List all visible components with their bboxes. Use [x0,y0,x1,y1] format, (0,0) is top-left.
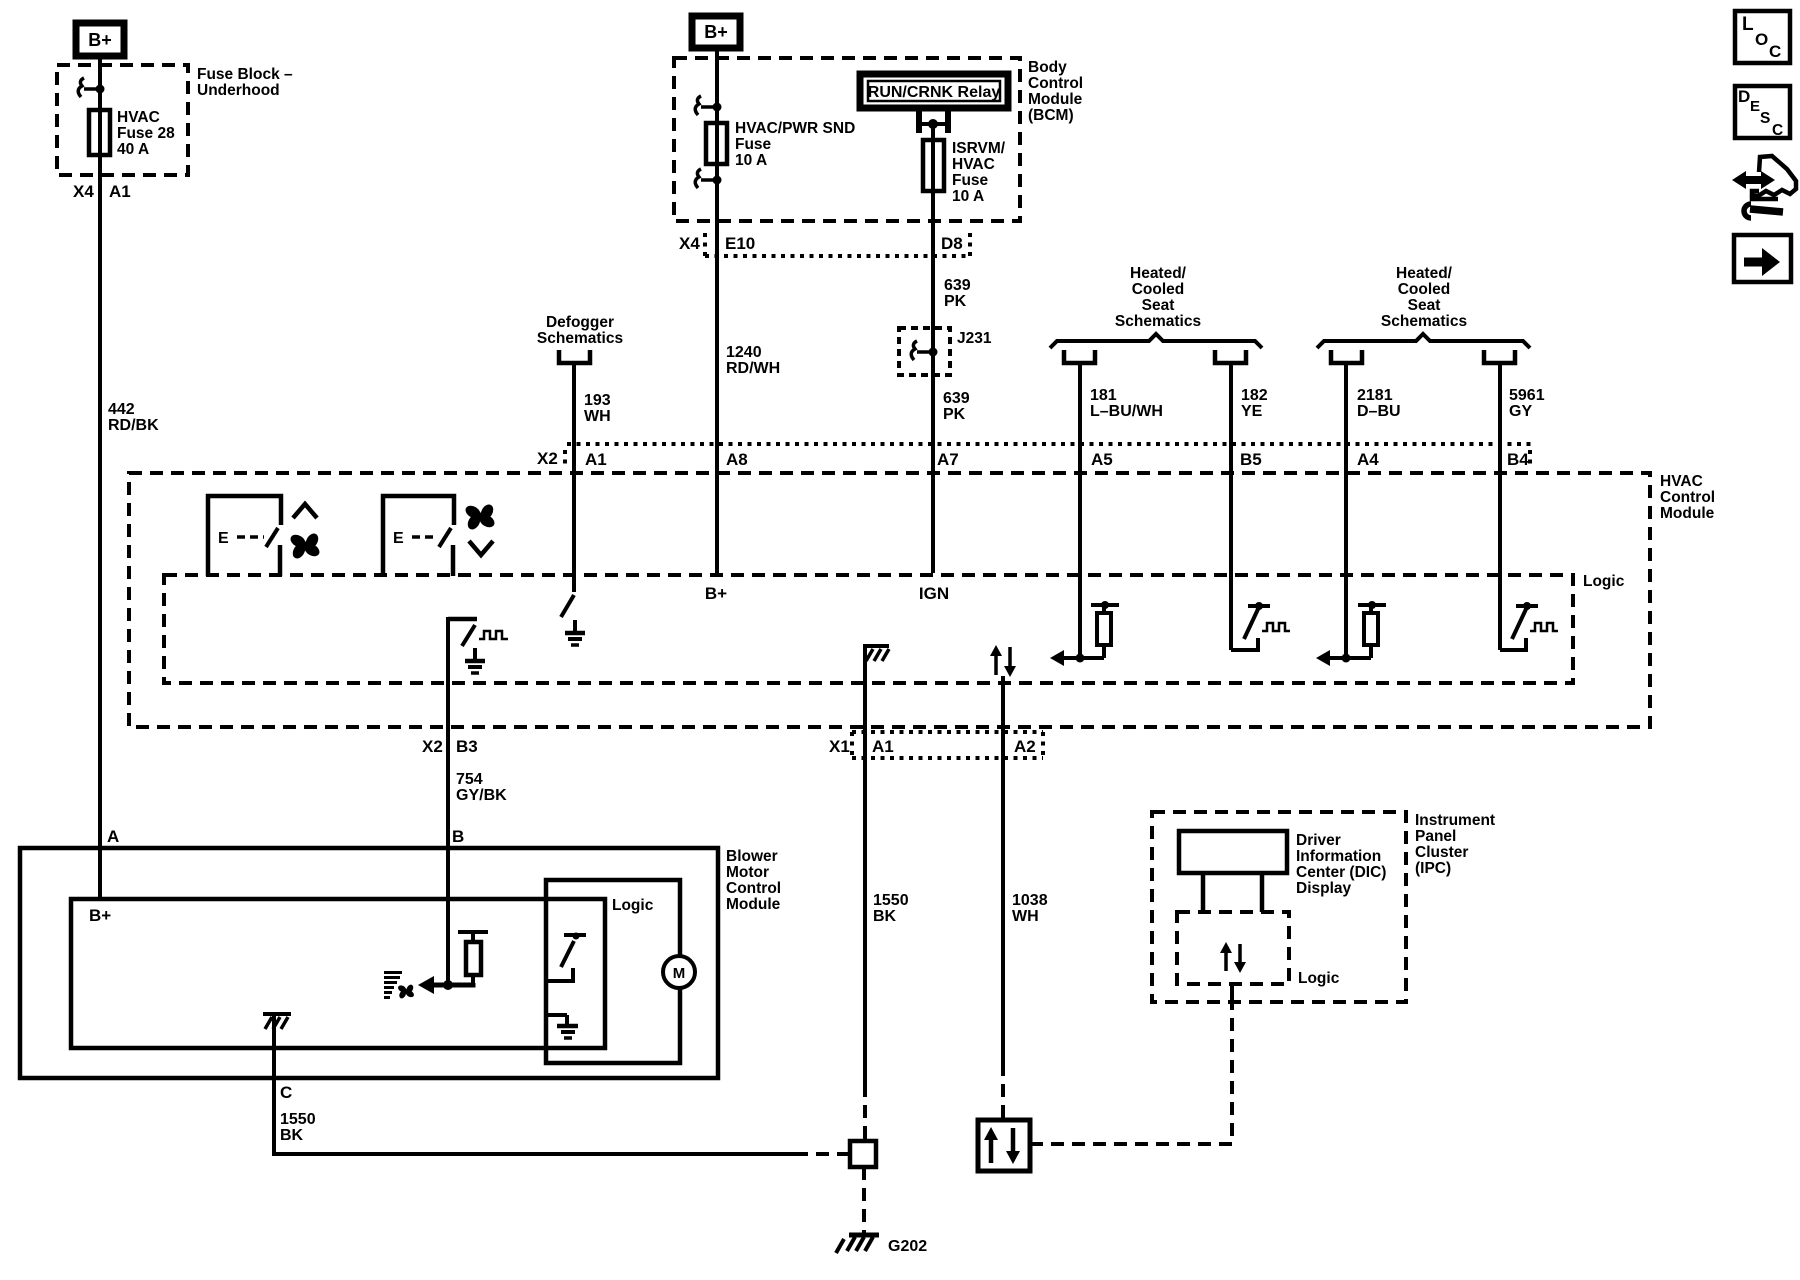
icon forward arrow box [1734,235,1791,282]
svg-text:B+: B+ [704,22,728,42]
svg-text:PK: PK [943,406,966,423]
svg-text:X4: X4 [73,182,94,201]
svg-text:E: E [393,530,404,547]
svg-text:Logic: Logic [612,897,654,914]
wire 5961 GY [1498,363,1502,650]
svg-text:Defogger: Defogger [546,314,614,331]
svg-text:PK: PK [944,293,967,310]
svg-text:182: 182 [1241,387,1268,404]
svg-text:Body: Body [1028,59,1067,76]
wire splice to G202 (dashed) [862,1167,866,1233]
svg-text:YE: YE [1241,403,1263,420]
splice J231 dashed box [899,328,992,375]
svg-text:L: L [1742,14,1754,35]
speed control resistor (module) [418,932,488,994]
svg-text:A5: A5 [1091,450,1113,469]
svg-text:A8: A8 [726,450,748,469]
actuator box 2 (mode door) [383,496,454,576]
wire 1038 WH dashed to arrow box [1001,1063,1005,1120]
svg-text:E: E [218,530,229,547]
svg-text:Display: Display [1296,880,1352,897]
svg-text:Panel: Panel [1415,828,1456,845]
svg-text:Underhood: Underhood [197,82,280,99]
wire 1550 BK (A1) solid part [863,646,867,1084]
blower speed output driver (B3) [448,619,508,646]
off-page bracket B5 [1215,350,1246,363]
svg-text:E10: E10 [725,234,755,253]
icon LOC box [1735,11,1790,63]
svg-text:181: 181 [1090,387,1117,404]
svg-text:D–BU: D–BU [1357,403,1401,420]
svg-text:RUN/CRNK Relay: RUN/CRNK Relay [868,84,1001,101]
svg-text:X4: X4 [679,234,700,253]
svg-text:Blower: Blower [726,848,778,865]
chassis ground symbol (A1 output) [863,646,889,661]
X1 connector row A1 A2 [829,732,1043,758]
svg-text:Seat: Seat [1408,297,1441,314]
label Fuse Block - Underhood [197,66,293,99]
seat sensor A5: resistor + arrow [1050,601,1119,666]
svg-text:Module: Module [726,896,781,913]
svg-text:G202: G202 [888,1238,927,1255]
svg-text:1240: 1240 [726,344,762,361]
ground G202 [836,1235,927,1255]
svg-text:Schematics: Schematics [1115,313,1201,330]
svg-text:A: A [107,827,119,846]
icon DESC box [1735,86,1790,139]
svg-text:Fuse: Fuse [952,172,989,189]
fan icon 2 [463,502,496,531]
svg-text:(IPC): (IPC) [1415,860,1451,877]
svg-text:BK: BK [280,1127,304,1144]
svg-text:Motor: Motor [726,864,769,881]
pwm/fan icon (speed command) [384,971,415,1000]
svg-text:1038: 1038 [1012,892,1048,909]
svg-text:B5: B5 [1240,450,1262,469]
ground (blower driver) [465,648,485,673]
svg-text:40 A: 40 A [117,141,149,158]
svg-text:B+: B+ [705,584,727,603]
chevron down (fan speed down) [469,541,493,555]
svg-text:IGN: IGN [919,584,949,603]
svg-text:10 A: 10 A [952,188,984,205]
brace (left seat group) [1050,334,1262,348]
svg-text:Schematics: Schematics [1381,313,1467,330]
wire label 639 PK (lower) [943,390,970,423]
svg-text:HVAC/PWR SND: HVAC/PWR SND [735,120,855,137]
wire 639 PK vertical [931,124,935,573]
pins X2 / B3 [422,737,478,756]
wire 1240 RD/WH vertical [715,51,719,573]
svg-text:Fuse: Fuse [735,136,772,153]
svg-text:Seat: Seat [1142,297,1175,314]
svg-text:Driver: Driver [1296,832,1341,849]
svg-text:HVAC: HVAC [1660,473,1703,490]
fan icon 1 [288,531,321,560]
svg-text:10 A: 10 A [735,152,767,169]
label Heated/Cooled Seat Schematics (left) [1115,265,1201,330]
svg-text:WH: WH [1012,908,1039,925]
label Heated/Cooled Seat Schematics (right) [1381,265,1467,330]
svg-text:O: O [1755,30,1768,49]
svg-text:Cooled: Cooled [1132,281,1185,298]
module B+ bus box [71,899,605,1048]
wire 1038 WH (A2) solid part [1001,676,1005,1063]
logic switch (module) [548,933,586,982]
ground (defogger output) [565,620,585,645]
node IGN (logic input) [919,584,949,603]
svg-text:RD/BK: RD/BK [108,417,159,434]
svg-text:GY: GY [1509,403,1532,420]
power symbol B+ (middle) [692,16,740,48]
svg-text:Logic: Logic [1583,573,1625,590]
svg-text:1550: 1550 [280,1111,316,1128]
wire label 442 RD/BK [108,401,159,434]
svg-text:193: 193 [584,392,611,409]
svg-text:S: S [1760,110,1770,127]
svg-text:Fuse 28: Fuse 28 [117,125,175,142]
wire 181 L-BU/WH [1078,363,1082,658]
wire 2181 D-BU [1344,363,1348,658]
svg-text:B+: B+ [88,30,112,50]
actuator box 1 (mode door) [208,496,281,576]
svg-text:A2: A2 [1014,737,1036,756]
off-page bracket A5 [1064,350,1095,363]
svg-text:L–BU/WH: L–BU/WH [1090,403,1163,420]
body control module dashed box [674,58,1020,221]
svg-text:B+: B+ [89,906,111,925]
wire 1550 BK dashed to splice [863,1084,867,1141]
svg-text:Control: Control [1028,75,1083,92]
chevron up (fan speed up) [293,504,317,518]
svg-text:Center (DIC): Center (DIC) [1296,864,1386,881]
wire data box to IPC (dashed) [1030,1005,1232,1144]
connector clip above fuse [695,96,721,115]
svg-text:D8: D8 [941,234,963,253]
fuse ISRVM/HVAC 10A [923,140,944,191]
svg-text:Logic: Logic [1298,970,1340,987]
svg-text:C: C [1769,42,1781,61]
logic ground (module) [548,1015,578,1038]
wire 754 GY/BK (B3 to blower module B) [446,617,450,985]
svg-text:B: B [452,827,464,846]
svg-text:A1: A1 [109,182,131,201]
label Defogger Schematics [537,314,623,347]
svg-text:C: C [1772,122,1783,139]
svg-text:E: E [1750,98,1760,115]
svg-text:M: M [673,965,686,982]
wire C 1550 BK (module to splice) [274,1014,795,1154]
svg-text:A1: A1 [585,450,607,469]
svg-text:A7: A7 [937,450,959,469]
off-page bracket B4 [1484,350,1515,363]
svg-text:Information: Information [1296,848,1381,865]
wire label 1240 RD/WH [726,344,780,377]
off-page bracket A4 [1331,350,1362,363]
power symbol B+ (left) [76,23,124,56]
pins X4 / A1 (fuse block) [73,182,131,201]
serial data box (up/down arrows) [978,1120,1030,1171]
off-page bracket (defogger) [559,350,590,363]
pin C [280,1083,292,1102]
svg-text:Instrument: Instrument [1415,812,1495,829]
svg-text:A4: A4 [1357,450,1379,469]
svg-text:2181: 2181 [1357,387,1393,404]
defogger output switch (logic) [561,595,574,617]
connector clip on wire (fuse block) [78,78,104,97]
relay RUN/CRNK [860,74,1008,108]
svg-text:5961: 5961 [1509,387,1545,404]
connector clip below fuse [695,169,721,188]
label Body Control Module (BCM) [1028,59,1083,124]
wire 442 RD/BK vertical (B+ to blower module A) [98,59,102,899]
DIC display box [1179,831,1287,912]
svg-text:Heated/: Heated/ [1130,265,1187,282]
svg-text:Control: Control [1660,489,1715,506]
svg-text:BK: BK [873,908,897,925]
seat sensor A4: resistor + arrow [1316,601,1386,666]
svg-text:(BCM): (BCM) [1028,107,1074,124]
seat driver B4: switch + pwm [1500,602,1558,650]
svg-text:RD/WH: RD/WH [726,360,780,377]
svg-text:639: 639 [943,390,970,407]
svg-text:X2: X2 [537,449,558,468]
svg-text:HVAC: HVAC [952,156,995,173]
blower motor control module box [20,848,718,1078]
svg-text:Heated/: Heated/ [1396,265,1453,282]
svg-text:C: C [280,1083,292,1102]
svg-text:Cluster: Cluster [1415,844,1468,861]
svg-text:HVAC: HVAC [117,109,160,126]
svg-text:442: 442 [108,401,135,418]
svg-text:A1: A1 [872,737,894,756]
connector clip J231 [911,341,937,360]
svg-text:Control: Control [726,880,781,897]
chassis ground (module output C) [263,1014,291,1029]
svg-text:Module: Module [1028,91,1083,108]
svg-text:754: 754 [456,771,483,788]
BCM connector row X4 E10 D8 [679,233,970,256]
serial data arrows (IPC logic) [1220,942,1246,973]
motor M [663,956,695,988]
svg-text:B3: B3 [456,737,478,756]
wire IPC logic stub [1230,984,1234,1005]
svg-text:B4: B4 [1507,450,1529,469]
svg-text:Fuse Block –: Fuse Block – [197,66,293,83]
svg-text:Module: Module [1660,505,1715,522]
svg-text:X2: X2 [422,737,443,756]
svg-text:Cooled: Cooled [1398,281,1451,298]
svg-text:D: D [1738,87,1750,106]
svg-text:1550: 1550 [873,892,909,909]
fuse HVAC/PWR SND 10A [706,123,727,164]
IPC dashed box [1152,812,1406,1002]
pin B (blower module) [452,827,464,846]
icon wiring/repair (arrows + car + wrench) [1732,156,1796,218]
svg-text:WH: WH [584,408,611,425]
brace (right seat group) [1317,334,1530,348]
svg-text:ISRVM/: ISRVM/ [952,140,1006,157]
serial data arrows (A2 output) [990,645,1016,677]
svg-text:J231: J231 [957,330,992,347]
svg-text:639: 639 [944,277,971,294]
node B+ (logic input) [705,584,727,603]
splice junction box [850,1141,876,1167]
HVAC control module dashed box [129,473,1650,727]
seat driver B5: switch + pwm [1231,602,1290,650]
pin A (blower module) [107,827,119,846]
IPC logic dashed box [1177,912,1289,984]
svg-text:Schematics: Schematics [537,330,623,347]
wire 182 YE [1229,363,1233,650]
HVAC logic dashed box [164,575,1573,683]
wire 193 WH [572,363,576,592]
module logic box [546,880,680,1063]
svg-text:X1: X1 [829,737,850,756]
fuse HVAC Fuse 28 40A [89,110,110,155]
fuse block underhood dashed box [57,65,188,175]
relay pin bracket [919,111,948,133]
svg-text:GY/BK: GY/BK [456,787,507,804]
wire label 639 PK (upper) [944,277,971,310]
